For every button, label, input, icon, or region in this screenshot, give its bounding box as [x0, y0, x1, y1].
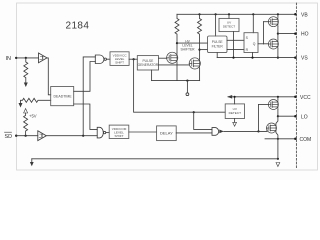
node HO mid — [277, 33, 279, 35]
wire SD — [16, 135, 38, 137]
svg-text:DELAY: DELAY — [160, 130, 173, 135]
svg-text:+5V: +5V — [29, 114, 37, 119]
svg-text:VS: VS — [301, 56, 308, 62]
wire UV line down — [134, 59, 226, 112]
wire to substrate terminal — [186, 81, 188, 93]
wire gate3 input1 — [194, 112, 212, 129]
wire G1 out — [107, 58, 111, 60]
schmitt buffer U-SD — [38, 131, 47, 141]
resistor R1 — [175, 14, 179, 43]
wire delay out — [176, 132, 212, 134]
wire G3 to driver — [224, 130, 259, 132]
wire pulsegen out2 — [159, 64, 190, 66]
schmitt buffer U-IN — [39, 53, 48, 63]
node R2 pulse line — [198, 49, 200, 51]
transistor Q5 driver low — [268, 100, 278, 110]
pin dot VS — [294, 56, 297, 59]
VCC rail — [228, 96, 295, 98]
wire bottom rail — [32, 158, 278, 160]
pin dot LO — [294, 115, 297, 118]
transistor Q2 level shift — [189, 58, 200, 69]
node SD branch — [82, 135, 84, 137]
wire filter bottom pin — [216, 53, 218, 58]
wire Q3 gate — [264, 21, 269, 23]
node COM mid — [277, 138, 279, 140]
wire LO gate bus — [258, 105, 260, 132]
svg-text:VB: VB — [301, 12, 308, 18]
resistor R-SD pullup — [24, 113, 28, 136]
UV detect box high — [219, 18, 239, 31]
svg-text:DETECT: DETECT — [229, 111, 241, 115]
svg-text:SD: SD — [5, 134, 13, 140]
pulse generator box — [137, 56, 158, 70]
node LO gate bus — [257, 130, 259, 132]
transistor Q3 driver high — [268, 17, 278, 27]
wire LO out — [278, 115, 296, 117]
latch box — [244, 33, 258, 53]
nand gate G2 low — [97, 127, 103, 138]
node substrate open circle — [186, 93, 189, 96]
wire UV2 bottom pin — [234, 119, 236, 123]
svg-text:VCC: VCC — [300, 95, 311, 101]
wire SD line to gates — [46, 135, 97, 137]
wire Q2 source — [199, 68, 201, 80]
IC boundary dashed pin line — [295, 3, 297, 168]
border frame — [17, 3, 318, 170]
wire pulsegen out1 — [159, 57, 167, 59]
pin dot HO — [294, 32, 297, 35]
wire G2 out — [106, 132, 109, 134]
node VB tap driver — [277, 13, 279, 15]
node VS latch — [251, 57, 253, 59]
arrow bottom rail com — [30, 162, 34, 166]
wire to delay — [129, 131, 157, 133]
arrow COM open — [276, 163, 280, 167]
wire VB to UV1 — [228, 14, 230, 18]
svg-text:COM: COM — [300, 137, 312, 143]
wire latch bottom pin — [252, 53, 254, 58]
arrow G3 out — [219, 130, 224, 134]
VB rail — [177, 13, 295, 15]
wire HO gate bus — [263, 22, 265, 44]
transistor Q6 driver low — [267, 123, 277, 133]
wire VCC to UV2 — [234, 97, 236, 104]
node R1 pulse line — [176, 42, 178, 44]
wire pulse line 2 — [200, 49, 208, 51]
wire Q1 drain — [176, 43, 178, 53]
wire COM drop to bottom rail — [277, 139, 279, 159]
wire filter to latch S — [227, 39, 244, 41]
SD overline — [5, 131, 12, 133]
SD pin dot — [15, 135, 17, 137]
node VB tap pulse filter — [215, 13, 217, 15]
wire latch Q out — [258, 43, 264, 45]
svg-text:GENERATOR: GENERATOR — [138, 63, 159, 67]
wire Q4 drain to HO — [277, 34, 279, 40]
wire IN — [16, 57, 38, 59]
HV level shifter label — [180, 39, 195, 51]
wire G3 to Q6 gate — [259, 128, 267, 131]
wire source rail — [152, 80, 200, 82]
wire HO out — [278, 33, 296, 35]
wire pulse line 1 — [177, 42, 208, 44]
wire DT out2 — [74, 104, 98, 129]
wire Q1 source — [176, 63, 178, 81]
wire Q4 source to VS — [277, 49, 279, 58]
wire Q5 drain to VCC — [277, 97, 279, 100]
nand gate G1 — [95, 55, 104, 64]
node VB tap R2 — [198, 13, 200, 15]
svg-text:Q: Q — [253, 42, 256, 46]
svg-text:SHIFT: SHIFT — [115, 134, 124, 138]
deadtime box — [51, 87, 74, 106]
wire Q5 gate — [259, 104, 269, 106]
wire Q5 source to LO — [277, 109, 279, 116]
svg-text:IN: IN — [6, 56, 11, 62]
wire VB to pulse filter — [215, 14, 217, 36]
node UV line branch — [133, 58, 135, 60]
pin dot VB — [294, 13, 297, 16]
+5V arrow — [24, 109, 28, 114]
UV detect box low — [225, 104, 244, 119]
node IN junction — [25, 57, 27, 59]
wire Q6 drain to LO — [276, 116, 278, 123]
level shift box high — [110, 52, 129, 66]
node UV line gate branch — [193, 111, 195, 113]
wire levelshift to pulsegen — [129, 58, 137, 60]
transistor Q1 level shift — [167, 52, 178, 63]
wire UV1 bottom pin — [233, 32, 235, 58]
ground arrow IN — [24, 83, 28, 88]
node bottom rail — [277, 158, 279, 160]
node VS uv1 — [232, 57, 234, 59]
resistor R-IN pulldown — [24, 58, 28, 83]
svg-text:FILTER: FILTER — [212, 44, 224, 48]
wire DT out1 — [74, 62, 96, 92]
svg-text:DETECT: DETECT — [223, 25, 235, 29]
IN pin dot — [15, 57, 17, 59]
wire bottom rail left drop — [31, 159, 33, 162]
node VB tap latch — [252, 13, 254, 15]
wire filter to latch R — [227, 49, 244, 51]
node VCC driver — [277, 96, 279, 98]
pin dot VCC — [294, 96, 297, 99]
and gate G3 — [212, 128, 219, 136]
node SD junction — [25, 135, 27, 137]
pulse filter box — [208, 36, 228, 53]
transistor Q4 driver high — [268, 39, 278, 49]
resistor R2 — [198, 14, 202, 49]
svg-text:DEADTIME: DEADTIME — [54, 95, 73, 99]
wire Q3 source to HO — [277, 26, 279, 33]
wire U-IN output to deadtime — [47, 58, 51, 95]
wire Q2 drain — [199, 50, 201, 59]
node source rail — [186, 80, 188, 82]
node LO mid — [277, 115, 279, 117]
wire VB to latch — [252, 14, 254, 32]
svg-text:2184: 2184 — [66, 21, 90, 32]
node VS mid — [277, 57, 279, 59]
wire Q6 source to COM — [276, 133, 278, 139]
node VB tap UV1 — [228, 13, 230, 15]
svg-text:LO: LO — [301, 114, 308, 120]
wire Q4 gate — [264, 43, 269, 45]
delay box — [157, 126, 177, 141]
svg-text:SHIFT: SHIFT — [115, 61, 124, 65]
wire COM out — [265, 138, 295, 140]
ground arrow DT — [19, 103, 23, 108]
svg-text:HO: HO — [301, 32, 309, 38]
level shift box low — [109, 125, 129, 138]
node VCC uv2 — [234, 96, 236, 98]
wire Q3 drain to VB — [277, 14, 279, 17]
pin dot COM — [294, 138, 297, 141]
svg-text:SHIFTER: SHIFTER — [180, 47, 195, 51]
arrow UV2 com — [233, 122, 237, 126]
wire pulsegen bottom to source rail — [151, 70, 153, 81]
resistor R-DT deadtime — [21, 98, 51, 103]
wire SD bus up — [83, 57, 95, 136]
wire VS rail — [217, 57, 295, 59]
arrow VCC left — [227, 95, 232, 99]
